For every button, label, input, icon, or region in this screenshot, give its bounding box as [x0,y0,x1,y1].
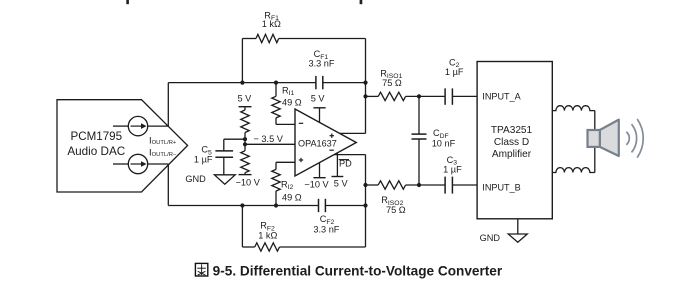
svg-text:−10 V: −10 V [304,180,329,190]
resistor RF1 [256,10,281,42]
speaker sound waves [626,119,643,158]
wire top feedback rail (RF1 rail) [242,38,365,40]
wire right vertical lower [365,155,367,247]
capacitor C3 [443,155,462,194]
resistor RISO1 [378,68,405,100]
wire op-amp non-inverting input [276,161,295,163]
svg-text:75 Ω: 75 Ω [382,78,402,88]
svg-text:1 µF: 1 µF [194,155,213,165]
svg-text:75 Ω: 75 Ω [386,205,406,215]
marker inverting input [299,122,303,124]
wire op-amp output plus [340,132,366,134]
svg-text:1 µF: 1 µF [443,165,462,175]
svg-text:−10 V: −10 V [236,178,261,188]
wire non-inverting-node rail [168,205,365,207]
wire DAC lower output bend [167,164,169,206]
ground TPA3251 [508,234,527,242]
svg-text:9-5. Differential Current-to-V: 9-5. Differential Current-to-Voltage Con… [213,264,503,279]
junction dots [240,81,421,208]
svg-text:Class D: Class D [494,137,529,148]
marker non-inverting input [299,158,303,162]
wire into lower current source [113,163,128,165]
svg-text:Audio DAC: Audio DAC [67,145,125,158]
wire RF1 left leg [241,39,243,83]
wire into upper current source [113,125,128,127]
wire lower current source to bend [148,163,169,165]
svg-text:− 3.5 V: − 3.5 V [254,134,284,144]
wire C5 branch [224,138,245,140]
caption figure marker (CJK tu character) [195,263,207,276]
wire VOCM line [245,143,295,145]
wire speaker vertical [594,111,596,173]
wire op-amp inverting input [276,123,295,125]
supply -10V op-amp [304,163,329,190]
svg-text:1 kΩ: 1 kΩ [258,231,277,241]
marker output minus [329,149,333,151]
resistor RISO2 [378,181,406,215]
svg-text:PD: PD [339,159,352,169]
svg-text:1 µF: 1 µF [445,67,464,77]
resistor RI1 [272,83,302,125]
pin PD pulled to 5V [332,153,353,189]
wire op-amp output minus [334,154,365,156]
pentagon PCM1795 Audio DAC [57,100,188,192]
speaker [588,120,619,156]
svg-text:OPA1637: OPA1637 [298,138,337,148]
supply 5V divider top [238,93,253,110]
inductor L2 (output filter bottom) [552,168,595,173]
stray mark top right [360,0,363,4]
wire RISO1 line [366,95,478,97]
svg-text:5 V: 5 V [334,179,349,189]
wire RF2 left leg [241,206,243,248]
resistor divider upper [241,110,249,133]
supply -10V divider bottom [236,173,261,188]
wire divider mid node [244,133,246,151]
capacitor CF2 [313,199,339,235]
wire RISO2 line [366,184,478,186]
resistor RF2 [255,221,280,252]
wire right vertical upper [365,39,367,134]
svg-text:INPUT_A: INPUT_A [482,92,521,102]
svg-text:1 kΩ: 1 kΩ [262,19,281,29]
svg-text:GND: GND [480,233,501,243]
svg-text:49 Ω: 49 Ω [282,192,302,202]
wire inverting-node rail [168,82,365,84]
resistor divider lower [241,151,249,173]
svg-text:Amplifier: Amplifier [492,149,532,160]
block TPA3251 Class D Amplifier [477,62,552,219]
svg-text:3.3 nF: 3.3 nF [313,225,339,235]
stray mark top left [126,0,129,4]
wire upper current source to bend [148,125,169,127]
wire bottom feedback rail (RF2 rail) [242,246,365,248]
svg-text:TPA3251: TPA3251 [491,125,533,136]
current source I_OUTL/R- [128,154,147,173]
svg-text:3.3 nF: 3.3 nF [308,59,334,69]
capacitor CDF [412,96,456,185]
inductor L1 (output filter top) [552,106,595,111]
svg-text:PCM1795: PCM1795 [71,130,123,143]
svg-text:5 V: 5 V [311,93,326,103]
supply 5V op-amp [311,93,326,122]
svg-text:10 nF: 10 nF [432,138,456,148]
resistor RI2 [272,162,302,205]
capacitor C2 [445,57,464,104]
svg-text:5 V: 5 V [238,93,253,103]
svg-text:GND: GND [185,174,206,184]
svg-text:INPUT_B: INPUT_B [482,183,520,193]
ground C5 [214,175,235,184]
capacitor C5 [194,139,233,175]
wire block GND stub [517,219,519,234]
capacitor CF1 [308,49,334,89]
wire DAC upper output bend [167,83,169,127]
marker output plus [330,134,334,138]
svg-text:49 Ω: 49 Ω [282,98,302,108]
current source I_OUTL/R+ [128,116,147,135]
op-amp U1 OPA1637 [295,109,356,176]
